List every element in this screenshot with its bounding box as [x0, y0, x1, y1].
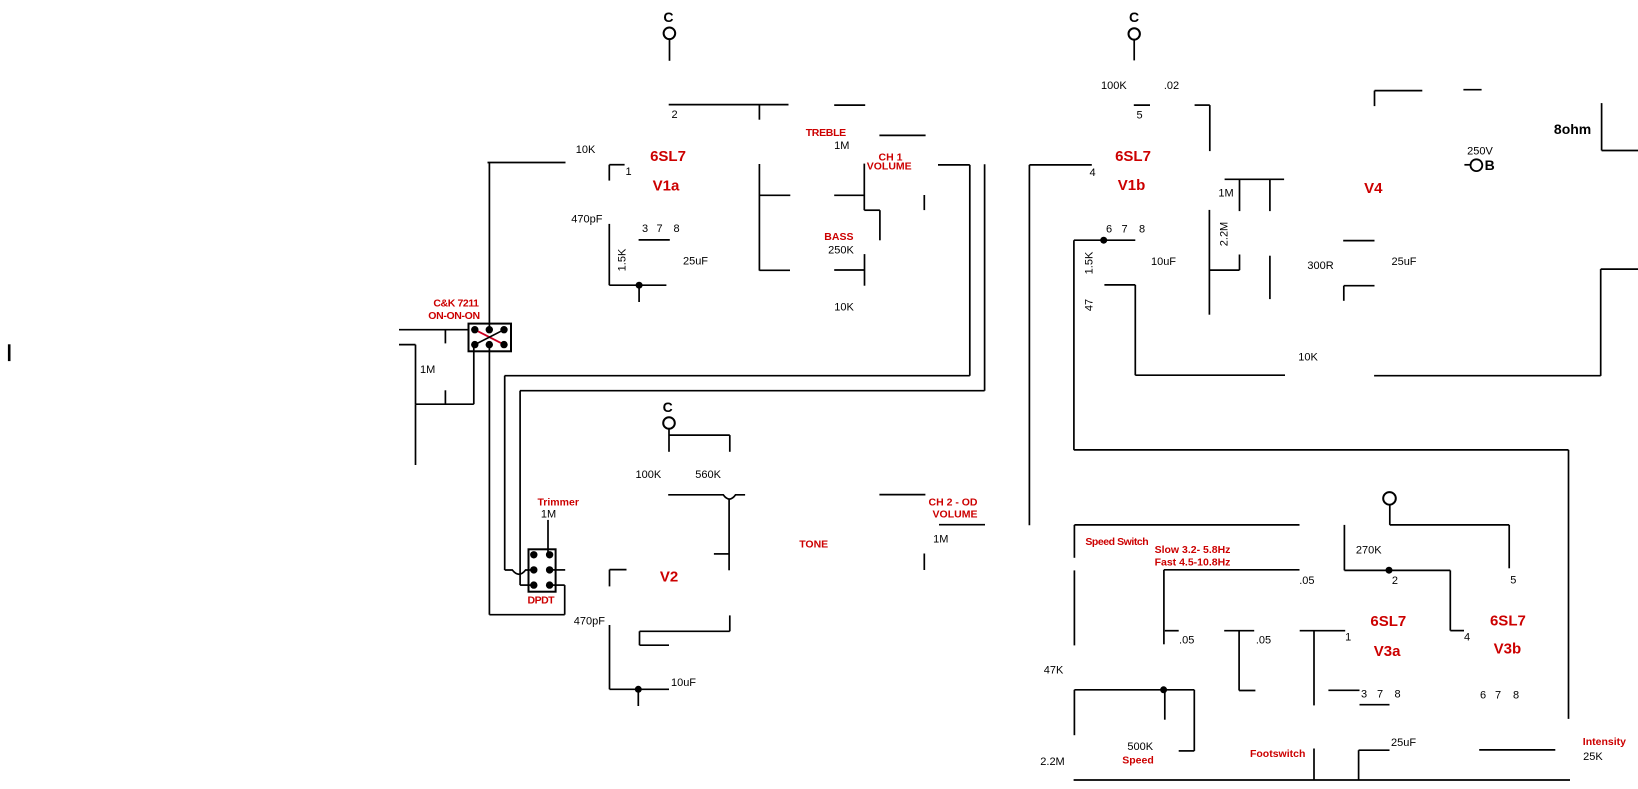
svg-text:250K: 250K — [828, 245, 854, 257]
svg-text:1M: 1M — [933, 533, 948, 545]
svg-text:10K: 10K — [834, 302, 854, 314]
svg-text:8: 8 — [1513, 690, 1519, 702]
svg-text:2: 2 — [671, 109, 677, 121]
svg-text:C: C — [663, 399, 673, 415]
svg-text:7: 7 — [656, 223, 662, 235]
svg-text:1.5K: 1.5K — [1083, 251, 1095, 274]
svg-text:C: C — [663, 9, 673, 25]
svg-text:47K: 47K — [1044, 665, 1064, 677]
svg-text:250V: 250V — [1467, 145, 1493, 157]
svg-text:V4: V4 — [1364, 180, 1383, 197]
svg-text:Fast 4.5-10.8Hz: Fast 4.5-10.8Hz — [1155, 556, 1231, 568]
svg-text:C&K 7211: C&K 7211 — [433, 297, 479, 309]
svg-text:8: 8 — [673, 223, 679, 235]
svg-text:10uF: 10uF — [671, 677, 696, 689]
svg-text:CH 2 - OD: CH 2 - OD — [928, 497, 977, 509]
svg-text:7: 7 — [1121, 223, 1127, 235]
svg-text:C: C — [1129, 9, 1139, 25]
svg-text:8ohm: 8ohm — [1554, 121, 1591, 137]
svg-text:Speed: Speed — [1122, 755, 1154, 767]
svg-text:3: 3 — [1361, 688, 1367, 700]
svg-text:.05: .05 — [1179, 635, 1194, 647]
svg-text:6SL7: 6SL7 — [1370, 613, 1406, 630]
svg-text:.05: .05 — [1256, 635, 1271, 647]
svg-text:500K: 500K — [1127, 741, 1153, 753]
svg-text:Footswitch: Footswitch — [1250, 748, 1305, 760]
svg-text:4: 4 — [1464, 632, 1470, 644]
svg-text:270K: 270K — [1356, 545, 1382, 557]
svg-text:BASS: BASS — [824, 231, 853, 243]
svg-text:8: 8 — [1139, 223, 1145, 235]
svg-text:1M: 1M — [834, 140, 849, 152]
svg-text:Slow 3.2- 5.8Hz: Slow 3.2- 5.8Hz — [1155, 544, 1231, 556]
svg-text:300R: 300R — [1307, 260, 1333, 272]
svg-text:47: 47 — [1083, 299, 1095, 311]
svg-text:6SL7: 6SL7 — [650, 148, 686, 165]
svg-text:470pF: 470pF — [574, 616, 605, 628]
svg-text:V3b: V3b — [1494, 640, 1522, 657]
svg-text:V1a: V1a — [653, 178, 680, 195]
svg-text:6SL7: 6SL7 — [1490, 612, 1526, 629]
svg-text:7: 7 — [1495, 690, 1501, 702]
svg-text:V1b: V1b — [1118, 177, 1146, 194]
svg-text:470pF: 470pF — [571, 214, 602, 226]
svg-text:2: 2 — [1392, 575, 1398, 587]
svg-text:VOLUME: VOLUME — [867, 160, 912, 172]
svg-text:7: 7 — [1377, 688, 1383, 700]
svg-text:4: 4 — [1089, 167, 1095, 179]
svg-text:5: 5 — [1510, 574, 1516, 586]
svg-text:1: 1 — [1345, 632, 1351, 644]
svg-text:2.2M: 2.2M — [1040, 756, 1064, 768]
svg-text:DPDT: DPDT — [528, 594, 556, 606]
svg-text:.02: .02 — [1164, 80, 1179, 92]
svg-text:1M: 1M — [541, 508, 556, 520]
svg-text:1: 1 — [625, 166, 631, 178]
svg-text:Trimmer: Trimmer — [537, 497, 578, 509]
svg-text:560K: 560K — [695, 469, 721, 481]
svg-text:3: 3 — [642, 223, 648, 235]
svg-text:6SL7: 6SL7 — [1115, 148, 1151, 165]
svg-text:6: 6 — [1106, 223, 1112, 235]
svg-text:5: 5 — [1136, 110, 1142, 122]
svg-text:TONE: TONE — [799, 539, 828, 551]
svg-text:100K: 100K — [1101, 80, 1127, 92]
svg-text:10K: 10K — [1298, 352, 1318, 364]
svg-text:100K: 100K — [636, 469, 662, 481]
svg-text:10uF: 10uF — [1151, 256, 1176, 268]
svg-text:.05: .05 — [1299, 575, 1314, 587]
svg-text:10K: 10K — [576, 144, 596, 156]
svg-text:6: 6 — [1480, 690, 1486, 702]
svg-text:B: B — [1485, 157, 1495, 173]
svg-text:Intensity: Intensity — [1583, 736, 1626, 748]
svg-text:2.2M: 2.2M — [1218, 222, 1230, 246]
svg-text:TREBLE: TREBLE — [806, 127, 846, 139]
svg-text:25K: 25K — [1583, 751, 1603, 763]
svg-text:25uF: 25uF — [683, 256, 708, 268]
svg-text:1.5K: 1.5K — [616, 248, 628, 271]
svg-text:25uF: 25uF — [1391, 256, 1416, 268]
svg-text:1M: 1M — [420, 364, 435, 376]
svg-text:1M: 1M — [1218, 188, 1233, 200]
svg-text:V3a: V3a — [1374, 643, 1401, 660]
svg-text:8: 8 — [1394, 688, 1400, 700]
svg-text:ON-ON-ON: ON-ON-ON — [428, 310, 479, 322]
svg-text:25uF: 25uF — [1391, 737, 1416, 749]
svg-text:V2: V2 — [660, 569, 678, 586]
svg-text:VOLUME: VOLUME — [933, 509, 978, 521]
svg-text:Speed Switch: Speed Switch — [1085, 536, 1148, 548]
